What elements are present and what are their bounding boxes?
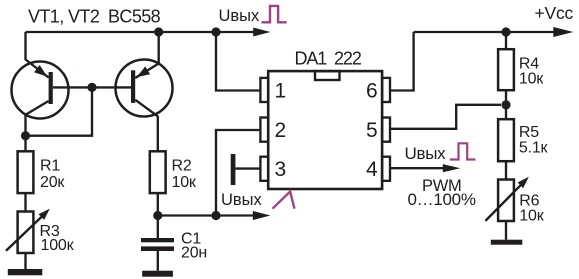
pin 4 <box>366 157 390 181</box>
svg-text:R2: R2 <box>172 158 192 175</box>
wire pin1 from rail <box>216 32 261 91</box>
svg-text:3: 3 <box>275 158 287 181</box>
svg-text:DA1 222: DA1 222 <box>295 48 362 68</box>
ground R3 <box>8 269 43 275</box>
svg-text:Uвых: Uвых <box>219 7 261 25</box>
wire pin5 to node <box>390 105 501 129</box>
svg-text:Uвых: Uвых <box>221 191 263 209</box>
output arrow Uvyh mid <box>253 211 271 220</box>
svg-text:2: 2 <box>275 119 287 142</box>
pin 1 <box>260 78 286 102</box>
ground C1 <box>142 271 173 277</box>
transistor VT2 <box>116 60 173 117</box>
op-amp IC DA1 body <box>268 48 382 189</box>
waveform ramp mid <box>273 192 295 209</box>
node R4/R5/pin5 <box>501 100 510 109</box>
waveform pulse top <box>262 6 287 22</box>
svg-text:5.1к: 5.1к <box>519 140 549 157</box>
pin 3 <box>260 157 286 181</box>
wire junction to mid output arrow <box>158 214 254 216</box>
ground R6 <box>491 240 523 245</box>
+Vcc arrow <box>553 27 573 37</box>
wire R4 to R5 <box>505 90 507 119</box>
wire rail to R4 <box>505 32 507 49</box>
capacitor C1 <box>141 216 207 271</box>
node pin2 wire junction <box>211 211 220 220</box>
wire R6 to ground <box>505 221 507 240</box>
svg-text:5: 5 <box>366 119 378 142</box>
wire pin3 stub <box>235 167 261 169</box>
resistor R4 <box>498 49 544 90</box>
svg-text:20к: 20к <box>40 174 65 191</box>
wire VT2 emitter <box>158 32 160 64</box>
wire pin6 to +Vcc rail <box>390 32 414 91</box>
pin 6 <box>366 78 390 102</box>
wire pin2 <box>216 130 261 216</box>
svg-text:R1: R1 <box>40 158 60 175</box>
pin 5 <box>366 118 390 142</box>
svg-text:6: 6 <box>366 79 378 102</box>
svg-text:100к: 100к <box>41 237 75 254</box>
wire VT1 emitter <box>24 32 26 60</box>
node rail/VT2 emitter <box>154 27 163 36</box>
node base junction <box>87 83 96 92</box>
resistor R1 <box>18 151 66 193</box>
svg-text:0…100%: 0…100% <box>408 190 476 209</box>
pin3 terminator bar <box>231 154 236 185</box>
wire R3 to ground <box>24 253 26 269</box>
wire pin4 output <box>390 167 444 169</box>
svg-text:VT1, VT2 BC558: VT1, VT2 BC558 <box>28 6 161 26</box>
wire R1 to R3 <box>24 193 26 211</box>
wire +Vcc rail <box>414 31 554 33</box>
output arrow PWM <box>443 164 461 172</box>
waveform pulse right <box>450 143 476 159</box>
wire R2 to junction <box>157 193 159 215</box>
svg-text:Uвых: Uвых <box>405 144 447 163</box>
wire VT1 collector down <box>24 114 26 152</box>
svg-text:4: 4 <box>366 158 378 181</box>
node R2/C1 junction <box>153 211 162 220</box>
pin 2 <box>260 118 286 142</box>
node rail/pin1 wire <box>211 27 220 36</box>
wire base junction <box>53 86 131 88</box>
node VT1 collector / R1 / feedback <box>21 131 30 140</box>
resistor R2 <box>150 151 197 193</box>
transistor VT1 <box>12 60 69 119</box>
svg-text:10к: 10к <box>519 208 544 225</box>
output arrow Uvyh top <box>253 28 270 37</box>
node rail/R4 <box>501 27 510 36</box>
wire VT2 collector down <box>157 116 159 152</box>
svg-text:1: 1 <box>275 79 287 102</box>
svg-text:10к: 10к <box>172 174 197 191</box>
resistor R6 variable <box>485 177 544 225</box>
wire top supply rail <box>26 31 255 33</box>
svg-text:10к: 10к <box>519 70 544 87</box>
resistor R3 variable <box>6 209 75 254</box>
svg-text:+Vcc: +Vcc <box>535 3 574 23</box>
wire feedback base to R1 top <box>26 87 93 135</box>
wire R5 to R6 <box>505 161 507 179</box>
resistor R5 <box>498 119 548 161</box>
svg-text:20н: 20н <box>181 244 207 261</box>
